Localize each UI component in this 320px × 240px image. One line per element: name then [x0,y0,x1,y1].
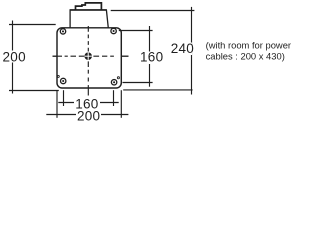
horizontal center line redrawn over box fill [53,55,129,57]
left dim 200: dimension line [12,21,14,94]
note text (mounting clearance) [206,39,291,61]
svg-text:240: 240 [171,41,194,56]
vertical center line (dashed, through box) [87,26,89,82]
label 160 (bottom, hole pitch horizontal) [74,98,100,110]
connector base (trapezoid) [70,10,108,28]
bottom dim 160: left extension line (from left holes) [63,90,65,106]
svg-text:200: 200 [3,49,26,64]
svg-text:200: 200 [77,109,100,124]
left dim 200: bottom extension line [9,90,59,92]
vertical center line: long dash crossing box bottom edge [87,85,89,95]
horizontal center line (dashed) [53,55,129,57]
bottom dim 200: right extension line (from box right edge) [120,90,122,118]
right dim 240: dimension line [191,7,193,95]
small hole bottom-left [57,75,59,77]
bottom dim 200: left extension line (from box left edge) [56,90,58,118]
mounting hole bottom-right [111,80,116,85]
bottom dim 200: dimension line [46,114,128,116]
small hole bottom-right [117,77,119,79]
svg-text:160: 160 [140,50,163,65]
mounting hole top-left [60,29,65,34]
mounting hole top-right [111,28,116,33]
left dim 200: top extension line [9,24,56,26]
vertical center line redrawn over box fill [87,26,89,82]
label 160 (right, hole pitch vertical) [141,52,163,65]
label 200 (bottom, box width) [76,110,101,122]
right dim 160: bottom extension line (from bottom holes) [123,82,153,84]
bottom dim 160: dimension line [58,102,118,104]
main box (rounded-corner body, top view) [57,28,121,88]
right dim 240: bottom extension line (from box bottom) [123,89,192,91]
label 200 (left, box height) [2,51,27,63]
right dim 160: top extension line (from top holes) [119,30,153,32]
svg-text:cables : 200 x 430): cables : 200 x 430) [206,51,285,62]
right dim 240: top extension line (from connector base top) [111,10,195,12]
right dim 160: dimension line [149,26,151,87]
vertical center line (solid segment in connector base) [87,15,89,26]
svg-text:(with room for power: (with room for power [206,39,291,50]
mounting hole bottom-left [61,78,66,83]
bottom dim 160: right extension line (from right holes) [113,90,115,106]
center mark (filled circle with white cross) [85,53,92,60]
connector base top edge [70,9,106,11]
connector cap (stepped plug profile) [76,3,102,10]
label 240 (right, overall height) [172,43,193,56]
